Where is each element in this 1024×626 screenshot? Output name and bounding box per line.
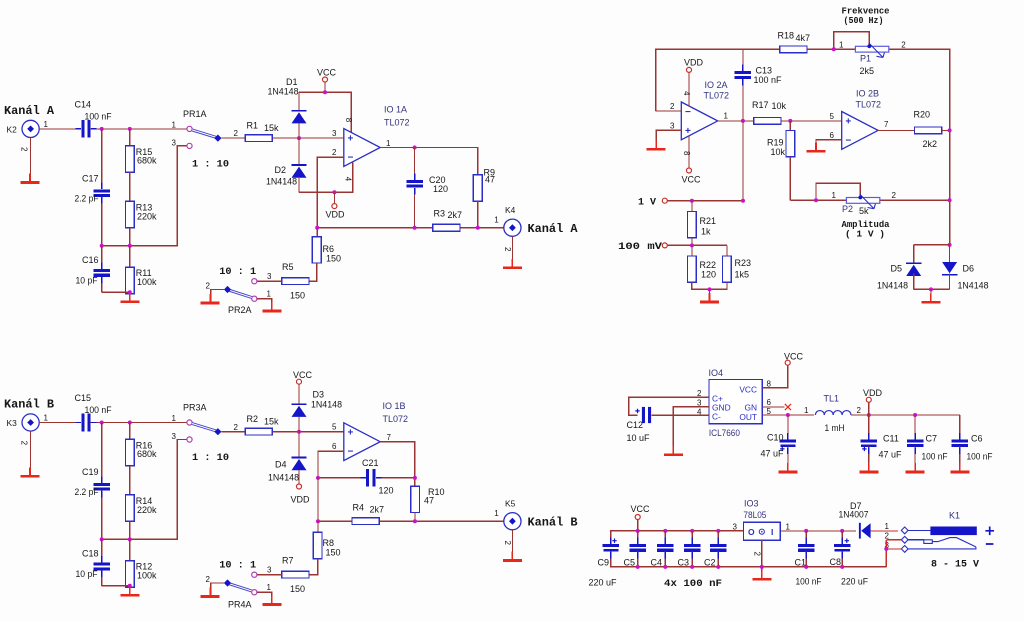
capacitor C21 [366,469,369,487]
svg-text:2: 2 [206,282,211,291]
switch PR4A [252,572,257,577]
svg-text:1: 1 [724,112,729,121]
IO4 pin5 OUT wire [762,414,814,416]
capacitor C12 [642,407,645,423]
svg-text:TL072: TL072 [383,414,409,424]
svg-text:1 : 10: 1 : 10 [192,159,229,171]
output wire IO1A [380,148,478,175]
svg-text:P1: P1 [860,54,871,64]
svg-text:5k: 5k [859,206,869,216]
capacitor C7 [913,413,917,417]
ground PR2A right [271,302,273,310]
resistor R9 [473,175,482,201]
svg-text:TL1: TL1 [824,394,840,404]
svg-text:1: 1 [44,120,49,129]
svg-text:1: 1 [267,290,272,299]
svg-text:4: 4 [682,91,691,96]
svg-text:4x 100 nF: 4x 100 nF [664,579,722,590]
svg-text:7: 7 [387,433,392,442]
svg-text:IO 2B: IO 2B [856,89,879,99]
diode D7 [859,523,861,539]
svg-text:100 nF: 100 nF [922,452,948,462]
svg-text:C19: C19 [82,467,99,477]
wire opamp pin6 feedback [318,451,344,478]
ground C7 [914,463,916,471]
svg-text:C2: C2 [704,558,716,568]
ground C6 [959,463,961,471]
svg-text:47 uF: 47 uF [879,450,903,460]
diode D5 [913,245,915,263]
capacitor C16 [93,269,110,272]
P2 wiper bracket [816,183,860,200]
svg-text:1: 1 [885,522,890,531]
svg-text:C7: C7 [926,434,938,444]
svg-text:2k7: 2k7 [448,210,463,220]
svg-text:6: 6 [332,442,337,451]
capacitor C9 [603,544,620,547]
K1 pin2 blade [908,539,924,541]
resistor R13 [125,201,134,227]
capacitor C5 [637,531,639,544]
svg-text:C11: C11 [883,434,899,444]
junction D5D6 top [948,243,952,247]
svg-text:2.2 pF: 2.2 pF [75,194,99,204]
svg-text:VDD: VDD [326,210,346,220]
K1 pin1 blade [908,529,930,531]
svg-text:IO 2A: IO 2A [705,80,728,90]
svg-text:I: I [771,527,773,537]
svg-text:100 nF: 100 nF [754,75,782,85]
P1 wiper bracket [834,32,869,50]
junction diode node A [297,136,301,140]
svg-text:C3: C3 [678,558,690,568]
svg-text:2: 2 [670,102,675,111]
svg-text:4: 4 [344,177,353,182]
svg-text:1: 1 [804,406,809,415]
wire R20 to right rail [942,129,950,131]
power top rail [611,531,744,544]
svg-text:3: 3 [172,432,177,441]
svg-text:150: 150 [326,254,341,264]
svg-text:1k5: 1k5 [735,270,750,280]
svg-text:D5: D5 [891,264,903,274]
capacitor C6 [959,415,961,439]
connector K3 [22,414,39,431]
wire R13 to middle row [129,228,131,246]
svg-text:R23: R23 [735,258,752,268]
capacitor C19 [93,483,110,486]
svg-text:K1: K1 [949,511,960,521]
svg-text:R1: R1 [247,120,259,130]
wire K2 to ground [30,138,32,182]
junction feedback left [316,476,320,480]
capacitor C2 [717,531,719,544]
node R15 top junction [128,127,132,131]
op-amp IO 1A [344,129,380,167]
VDD rail A [299,163,353,193]
svg-text:1: 1 [839,40,844,49]
resistor R6 [312,237,321,263]
resistor R21 [691,201,693,212]
resistor R22 [691,245,693,256]
potentiometer P1 [855,46,888,52]
ground C10 [787,463,789,471]
resistor R16 [129,423,131,440]
D5 D6 bottom bracket [914,288,950,290]
middle row wire A [102,146,187,246]
junction C2 top [716,529,720,533]
wire K5 ground [511,530,513,559]
IO2B pin6 wire [816,140,842,150]
junction R20 rail [948,128,952,132]
IO4 pin2 wire [629,397,709,415]
svg-text:78L05: 78L05 [743,510,766,520]
svg-text:100k: 100k [137,277,157,287]
wire pin6 node down [317,478,319,521]
capacitor C11 [868,415,870,439]
junction C20 top [413,146,417,150]
IC IO4 ICL7660 [709,380,762,424]
svg-text:3: 3 [332,129,337,138]
output wire IO1B [380,442,415,486]
wire R16 to R14 [129,466,131,495]
svg-text:TL072: TL072 [384,118,410,128]
capacitor pin stubs overlay [76,128,97,130]
wire C15 to PR3A pin1 [91,422,187,424]
C12 right lead [651,414,709,416]
ground C11 [868,463,870,471]
VDD symbol B [297,484,302,489]
svg-text:R20: R20 [914,110,931,120]
IO4 pin6 no connect [762,406,784,408]
svg-text:8: 8 [682,151,691,156]
wire down to C19 [101,423,103,481]
svg-text:10 pF: 10 pF [76,569,98,579]
100mV row wire [667,244,727,246]
1V row wire [667,121,743,201]
ground D5 D6 [930,293,932,301]
svg-text:1N4007: 1N4007 [839,510,869,520]
svg-text:2: 2 [503,541,512,546]
junction R8 top [316,519,320,523]
IO4 pin3 wire [673,407,709,453]
connector K2 [22,120,39,137]
resistor R20 [915,127,942,134]
svg-text:1N4148: 1N4148 [958,281,989,291]
svg-text:2: 2 [892,191,897,200]
svg-text:2k2: 2k2 [923,139,938,149]
VCC rail A [324,82,326,92]
IO2A VDD stub [688,72,690,106]
svg-text:1: 1 [172,121,177,130]
svg-text:220 uF: 220 uF [589,578,617,588]
resistor R7 [282,571,309,578]
ground IO3 [761,570,763,578]
svg-text:150: 150 [326,547,341,557]
svg-text:1N4148: 1N4148 [268,472,299,482]
capacitor C4 [664,531,666,544]
svg-text:R21: R21 [700,216,717,226]
resistor R14 [125,495,134,521]
junction C13 bottom [741,119,745,123]
capacitor C8 [841,531,843,544]
svg-text:R6: R6 [323,244,335,254]
svg-text:6: 6 [830,131,835,140]
svg-text:Kanál B: Kanál B [4,399,54,412]
K1 pin stubs [886,539,901,541]
svg-text:1: 1 [832,191,837,200]
VDD symbol A [332,190,336,194]
svg-text:2: 2 [206,575,211,584]
resistor R1 [245,135,272,142]
svg-text:−: − [347,447,353,458]
svg-text:1N4148: 1N4148 [877,281,908,291]
output row B [318,520,352,522]
svg-text:O: O [748,527,755,537]
ground under K3 [29,467,31,475]
potentiometer P2 [846,198,879,204]
svg-text:+: + [685,126,691,137]
svg-text:120: 120 [433,184,448,194]
ground under R11 [129,293,131,301]
wire R6 to R5 [309,263,317,281]
ground IO2A pin3 [655,140,657,148]
junction R9 bottom [476,226,480,230]
svg-text:C10: C10 [767,433,784,443]
svg-text:8: 8 [767,380,772,389]
wire R17 to IO2B pin5 [781,120,842,122]
junction P2 rail [948,198,952,202]
resistor R17 [754,118,781,125]
svg-text:47 uF: 47 uF [761,449,785,459]
wire K2 to C14 [39,128,81,130]
capacitor C18 [93,563,110,566]
wire PR2A pin1 to ground [257,299,272,310]
junction C17-C16 [100,244,104,248]
capacitor C3 [691,531,693,544]
resistor R2 [245,428,272,435]
diode D4 [298,432,300,457]
ground under K2 [29,174,31,182]
wire R8 to R5row [309,559,318,575]
svg-text:3: 3 [733,523,738,532]
svg-text:Kanál B: Kanál B [528,517,578,530]
svg-text:1N4148: 1N4148 [268,87,299,97]
VCC symbol A [323,77,328,82]
resistor R18 [780,46,807,53]
svg-text:C4: C4 [651,558,663,568]
IO2A output wire [718,120,754,122]
junction C10 [786,413,790,417]
svg-text:R18: R18 [778,30,795,40]
svg-text:D2: D2 [275,165,287,175]
svg-text:4: 4 [697,408,702,417]
svg-text:VCC: VCC [293,370,313,380]
svg-text:220k: 220k [137,211,157,221]
feedback row C21 [318,477,362,479]
svg-text:150: 150 [290,291,305,301]
wire PR2A common to ground [211,290,224,302]
VCC symbol B [297,379,302,384]
svg-text:C5: C5 [624,558,636,568]
wire C16 to bottom row [101,277,103,292]
junction bottom A [128,290,132,294]
ground PR2A left [209,294,211,302]
svg-text:−: − [685,107,691,118]
svg-text:1: 1 [172,414,177,423]
svg-text:1N4148: 1N4148 [311,400,342,410]
IO2A pin2 wire [656,110,682,112]
resistor R23 [726,245,728,256]
svg-text:100 nF: 100 nF [85,405,112,415]
svg-text:VDD: VDD [863,388,883,398]
resistor R5 [282,278,309,285]
node A input junction [100,127,104,131]
svg-text:7: 7 [884,120,889,129]
svg-text:C1: C1 [795,558,807,568]
svg-text:2k7: 2k7 [370,504,385,514]
svg-text:150: 150 [290,584,305,594]
ground under K4 [511,259,513,267]
wire R7 to PR4A pin3 [257,574,282,576]
svg-text:5: 5 [830,112,835,121]
svg-text:1: 1 [267,583,272,592]
svg-text:R7: R7 [282,556,294,566]
svg-text:C13: C13 [756,65,773,75]
capacitor C1 [805,531,807,544]
resistor R4 [352,518,379,525]
svg-text:1: 1 [494,509,499,518]
wire middle row to C16 [101,246,103,267]
svg-text:C6: C6 [971,434,983,444]
svg-text:8: 8 [344,118,353,123]
svg-text:( 1 V ): ( 1 V ) [845,230,885,240]
junction VCC C5 [636,529,640,533]
svg-text:8 - 15 V: 8 - 15 V [931,560,979,571]
svg-text:R2: R2 [247,414,259,424]
junction feedback right [413,476,417,480]
TL1 to VDD junction [851,414,960,416]
svg-text:3: 3 [670,122,675,131]
svg-text:100k: 100k [137,570,157,580]
svg-text:D6: D6 [963,264,975,274]
svg-text:2: 2 [697,389,702,398]
svg-text:R5: R5 [282,262,294,272]
svg-text:1: 1 [494,215,499,224]
resistor R10 [411,486,420,512]
svg-text:1: 1 [786,523,791,532]
middle row wire B [102,440,187,540]
op-amp IO 2A [681,102,717,140]
node B input junction [100,421,104,425]
junction C1 top [804,529,808,533]
diode D2 [298,138,300,164]
junction R10 bottom [413,519,417,523]
wire R2 to opamp pin5 [272,431,344,433]
svg-text:2: 2 [857,406,862,415]
junction R19 top [788,119,792,123]
wire R15 to R13 [129,172,131,201]
svg-text:15k: 15k [264,416,279,426]
K1 plus minus [985,527,994,545]
svg-text:3: 3 [697,399,702,408]
wire PR4A common to ground [211,583,224,595]
svg-text:R3: R3 [434,209,446,219]
svg-text:TL072: TL072 [704,91,730,101]
svg-text:100 mV: 100 mV [618,242,662,253]
svg-text:C8: C8 [830,557,842,567]
wire R19 to P2 row [789,157,791,200]
svg-text:2: 2 [332,148,337,157]
junction C3 top [690,529,694,533]
wire opamp pin2 feedback [317,157,344,236]
svg-text:IO3: IO3 [744,499,759,509]
svg-text:10k: 10k [771,147,786,157]
svg-text:10 : 1: 10 : 1 [219,266,256,278]
svg-text:C17: C17 [82,174,99,184]
svg-text:R22: R22 [700,260,717,270]
svg-text:IO4: IO4 [709,368,724,378]
svg-text:PR1A: PR1A [183,109,207,119]
diode D3 [298,384,300,403]
VDD symbol power [868,402,870,415]
svg-text:VCC: VCC [682,175,702,185]
IC IO3 78L05 [743,522,780,540]
ground divider [709,293,711,301]
svg-text:D4: D4 [275,459,287,469]
svg-text:1N4148: 1N4148 [266,176,297,186]
svg-text:VCC: VCC [784,352,804,362]
junction diode node B [297,430,301,434]
IO2A pin3 wire [656,130,681,148]
svg-text:10 : 1: 10 : 1 [219,560,256,572]
node R16 top junction [128,421,132,425]
junction bottom B [128,584,132,588]
resistor R15 [129,129,131,146]
svg-text:1: 1 [386,139,391,148]
svg-text:C12: C12 [627,420,644,430]
wire middle row to C18 [101,539,103,560]
svg-text:PR2A: PR2A [228,305,252,315]
ground PR4A right [271,596,273,604]
svg-text:R4: R4 [353,503,365,513]
ground IO2B pin6 [815,142,817,150]
resistor R12 [129,539,131,560]
svg-text:2.2 pF: 2.2 pF [75,487,99,497]
svg-text:1k: 1k [701,227,711,237]
svg-text:Kanál A: Kanál A [4,105,54,118]
svg-text:D1: D1 [286,77,298,87]
svg-text:1 V: 1 V [638,197,656,208]
svg-text:K3: K3 [7,418,18,428]
svg-text:2: 2 [885,532,890,541]
D5 D6 top bracket [914,244,950,246]
svg-text:VDD: VDD [684,58,704,68]
wire K4 ground [511,236,513,266]
wire C17 to middle row [101,197,103,246]
power bottom rail [611,552,886,567]
capacitor C10 [787,415,789,439]
resistor R8 [317,521,319,532]
svg-text:VCC: VCC [739,385,757,395]
svg-text:2: 2 [234,423,239,432]
svg-text:5: 5 [332,423,337,432]
svg-text:(500 Hz): (500 Hz) [844,16,884,26]
svg-text:3: 3 [267,566,272,575]
IO2B output wire [878,129,915,131]
wire C18 to bottom row [101,570,103,585]
svg-text:5: 5 [767,407,772,416]
